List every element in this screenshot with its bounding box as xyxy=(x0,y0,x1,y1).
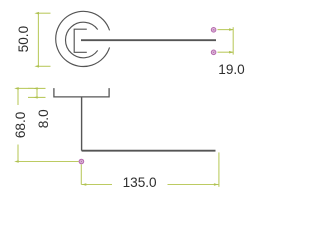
dimension 50.0 arrows xyxy=(34,12,39,15)
datum marker top right lower xyxy=(211,50,216,55)
lever neck (top view) xyxy=(81,97,83,151)
dimension 68.0 line xyxy=(18,88,79,161)
dimension 68.0 arrows xyxy=(14,87,19,90)
svg-text:68.0: 68.0 xyxy=(13,111,28,138)
dimension 19.0 arrows xyxy=(229,28,234,31)
dimension 8.0 arrows xyxy=(33,87,37,89)
lever bar (top view) xyxy=(82,150,216,152)
collar arc (front view, open right) xyxy=(65,22,97,58)
spindle bracket (front view) xyxy=(74,29,87,52)
datum marker bottom left xyxy=(79,159,84,164)
lever bar (front view) xyxy=(81,39,216,41)
svg-text:135.0: 135.0 xyxy=(123,175,157,190)
rose outer circle (front view, open right) xyxy=(56,11,110,66)
dimension 135.0 extension lines xyxy=(81,152,219,186)
dimension 135.0 arrows xyxy=(82,183,87,186)
dimension 19.0 extension lines xyxy=(218,27,234,54)
dimension 8.0 line xyxy=(28,88,46,97)
svg-text:50.0: 50.0 xyxy=(16,25,31,52)
dimension 50.0 line xyxy=(38,13,50,66)
datum marker top right upper xyxy=(211,28,216,33)
svg-text:19.0: 19.0 xyxy=(218,62,245,77)
rose profile (top view) xyxy=(54,88,109,97)
svg-text:8.0: 8.0 xyxy=(36,109,51,128)
